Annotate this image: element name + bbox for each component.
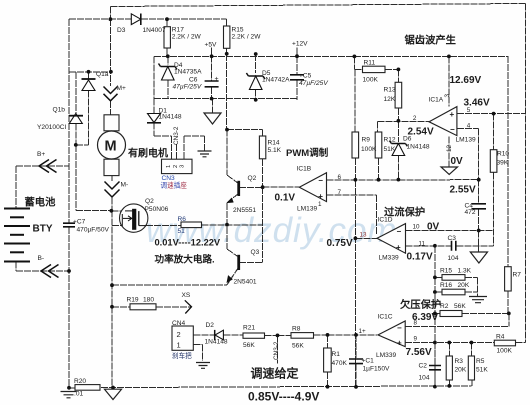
svg-text:1N4148: 1N4148 xyxy=(159,114,182,121)
svg-text:BTY: BTY xyxy=(33,224,53,235)
svg-text:XS: XS xyxy=(182,292,191,299)
svg-text:0V: 0V xyxy=(451,156,464,167)
svg-text:CN4: CN4 xyxy=(172,320,186,327)
svg-text:Q2: Q2 xyxy=(145,198,154,205)
svg-text:CN3-2: CN3-2 xyxy=(273,341,280,360)
svg-text:R4: R4 xyxy=(496,334,505,341)
svg-text:欠压保护: 欠压保护 xyxy=(400,298,441,311)
svg-text:470K: 470K xyxy=(332,360,348,367)
svg-text:调速给定: 调速给定 xyxy=(251,366,299,381)
svg-text:M-: M- xyxy=(121,182,129,189)
svg-text:LM139: LM139 xyxy=(297,206,317,213)
svg-text:2: 2 xyxy=(413,115,417,122)
svg-text:2: 2 xyxy=(173,165,179,168)
svg-text:R5: R5 xyxy=(476,358,485,365)
svg-text:PWM调制: PWM调制 xyxy=(286,147,329,159)
svg-text:−: − xyxy=(397,227,402,236)
svg-text:R20: R20 xyxy=(74,378,86,385)
svg-text:−: − xyxy=(450,125,455,134)
svg-text:2N5401: 2N5401 xyxy=(234,279,257,286)
svg-text:20K: 20K xyxy=(458,282,470,289)
svg-text:104: 104 xyxy=(448,255,459,262)
svg-text:1: 1 xyxy=(177,341,181,350)
svg-text:锯齿波产生: 锯齿波产生 xyxy=(405,34,456,47)
svg-text:0V: 0V xyxy=(427,222,440,233)
svg-text:10: 10 xyxy=(413,224,421,231)
svg-text:R16: R16 xyxy=(440,282,452,289)
svg-text:39K: 39K xyxy=(497,160,509,167)
svg-text:12: 12 xyxy=(446,144,453,152)
svg-text:Q2: Q2 xyxy=(248,175,257,182)
svg-text:CN3: CN3 xyxy=(162,175,176,182)
svg-text:+C5: +C5 xyxy=(299,73,312,80)
svg-text:+12V: +12V xyxy=(292,41,308,48)
svg-text:R3: R3 xyxy=(455,358,464,365)
svg-text:180: 180 xyxy=(143,297,154,304)
svg-text:−: − xyxy=(397,324,402,333)
svg-text:LM339: LM339 xyxy=(379,255,399,262)
svg-text:2.2K / 2W: 2.2K / 2W xyxy=(172,33,202,40)
svg-text:104: 104 xyxy=(419,375,430,382)
svg-text:2N5551: 2N5551 xyxy=(233,207,256,214)
svg-text:0.85V----4.9V: 0.85V----4.9V xyxy=(248,390,319,404)
svg-text:470µF/50V: 470µF/50V xyxy=(77,227,110,234)
svg-text:R19: R19 xyxy=(127,297,139,304)
svg-text:过流保护: 过流保护 xyxy=(384,206,425,219)
svg-text:IC1A: IC1A xyxy=(429,97,444,104)
svg-text:0.01V----12.22V: 0.01V----12.22V xyxy=(155,238,221,248)
svg-text:+C1: +C1 xyxy=(362,358,375,365)
svg-text:2.55V: 2.55V xyxy=(450,185,476,196)
svg-text:R8: R8 xyxy=(292,326,301,333)
svg-text:1N4007: 1N4007 xyxy=(143,27,166,34)
svg-text:蓄电池: 蓄电池 xyxy=(25,196,57,209)
svg-text:Q1a: Q1a xyxy=(96,71,109,78)
svg-text:+: + xyxy=(215,76,219,83)
svg-text:R6: R6 xyxy=(178,216,187,223)
svg-text:C6: C6 xyxy=(189,77,198,84)
svg-text:1N4742A: 1N4742A xyxy=(262,77,290,84)
svg-text:.01: .01 xyxy=(74,391,83,398)
svg-text:Q1b: Q1b xyxy=(53,107,66,114)
svg-text:0.17V: 0.17V xyxy=(407,252,433,263)
svg-text:4: 4 xyxy=(467,122,471,129)
svg-text:1.3K: 1.3K xyxy=(458,267,472,274)
svg-text:+: + xyxy=(450,110,455,119)
svg-text:R12: R12 xyxy=(384,137,396,144)
svg-text:Y20100CI: Y20100CI xyxy=(37,124,66,131)
svg-text:+: + xyxy=(396,243,401,252)
svg-text:1µF150V: 1µF150V xyxy=(363,366,390,373)
svg-text:51: 51 xyxy=(178,228,186,235)
svg-text:1: 1 xyxy=(318,201,322,208)
svg-text:R1: R1 xyxy=(332,351,341,358)
svg-text:51K: 51K xyxy=(384,146,396,153)
svg-text:3.46V: 3.46V xyxy=(464,98,490,109)
svg-text:M: M xyxy=(105,139,117,155)
svg-text:12.69V: 12.69V xyxy=(450,75,482,86)
svg-text:472: 472 xyxy=(465,209,476,216)
svg-text:LM139: LM139 xyxy=(456,137,476,144)
svg-text:47µF/25V: 47µF/25V xyxy=(299,80,328,87)
svg-text:R10: R10 xyxy=(497,151,509,158)
svg-text:2: 2 xyxy=(177,330,181,339)
svg-text:P50N06: P50N06 xyxy=(145,206,169,213)
svg-text:刹车把: 刹车把 xyxy=(172,351,192,360)
svg-text:D3: D3 xyxy=(117,27,126,34)
svg-text:100K: 100K xyxy=(363,77,379,84)
svg-text:调速插座: 调速插座 xyxy=(161,181,188,190)
svg-text:56K: 56K xyxy=(243,342,255,349)
svg-text:D2: D2 xyxy=(206,322,215,329)
svg-text:Q3: Q3 xyxy=(251,249,260,256)
svg-text:0.75V: 0.75V xyxy=(327,238,353,249)
svg-text:R11: R11 xyxy=(364,60,376,67)
svg-text:12K: 12K xyxy=(384,96,396,103)
svg-text:C2: C2 xyxy=(419,363,428,370)
svg-text:R13: R13 xyxy=(384,87,396,94)
svg-text:5.1K: 5.1K xyxy=(268,147,282,154)
svg-text:100K: 100K xyxy=(497,348,513,355)
svg-text:51K: 51K xyxy=(476,367,488,374)
svg-text:47µF/25V: 47µF/25V xyxy=(173,84,202,91)
svg-text:56K: 56K xyxy=(292,343,304,350)
svg-text:1+: 1+ xyxy=(359,328,367,335)
svg-text:1N4148: 1N4148 xyxy=(205,339,228,346)
svg-text:功率放大电路.: 功率放大电路. xyxy=(155,254,215,266)
svg-text:M+: M+ xyxy=(117,85,126,92)
svg-text:+: + xyxy=(318,192,323,201)
svg-text:IC1C: IC1C xyxy=(378,313,393,320)
svg-text:1: 1 xyxy=(166,165,172,168)
svg-text:CN3-2: CN3-2 xyxy=(173,126,180,145)
svg-text:3: 3 xyxy=(180,165,186,168)
svg-text:+C7: +C7 xyxy=(73,219,86,226)
svg-text:7.56V: 7.56V xyxy=(406,347,432,358)
svg-text:R14: R14 xyxy=(268,140,280,147)
svg-text:13: 13 xyxy=(360,232,368,239)
svg-text:7: 7 xyxy=(338,189,342,196)
svg-text:+: + xyxy=(397,339,402,348)
svg-text:20K: 20K xyxy=(455,367,467,374)
svg-text:R21: R21 xyxy=(243,325,255,332)
svg-text:+5V: +5V xyxy=(205,42,218,49)
svg-text:6: 6 xyxy=(338,174,342,181)
svg-text:2.54V: 2.54V xyxy=(408,127,434,138)
svg-text:2.2K / 2W: 2.2K / 2W xyxy=(232,33,262,40)
svg-text:R7: R7 xyxy=(513,272,522,279)
svg-text:有刷电机: 有刷电机 xyxy=(128,147,168,160)
svg-text:B-: B- xyxy=(38,255,45,262)
svg-text:1N4148: 1N4148 xyxy=(407,144,430,151)
svg-text:R9: R9 xyxy=(362,137,371,144)
svg-text:LM339: LM339 xyxy=(376,352,396,359)
svg-text:R15: R15 xyxy=(440,267,452,274)
svg-text:9: 9 xyxy=(414,336,418,343)
svg-text:1N4735A: 1N4735A xyxy=(174,69,202,76)
svg-text:R2: R2 xyxy=(440,303,449,310)
svg-text:B+: B+ xyxy=(37,151,45,158)
svg-text:IC1B: IC1B xyxy=(297,166,312,173)
svg-text:6.39V: 6.39V xyxy=(412,312,438,323)
svg-text:100K: 100K xyxy=(361,146,377,153)
svg-text:56K: 56K xyxy=(454,303,466,310)
svg-text:0.1V: 0.1V xyxy=(275,193,296,204)
svg-text:3: 3 xyxy=(444,94,451,98)
svg-text:11: 11 xyxy=(419,240,426,247)
svg-text:C3: C3 xyxy=(448,235,457,242)
svg-text:−: − xyxy=(318,176,323,185)
